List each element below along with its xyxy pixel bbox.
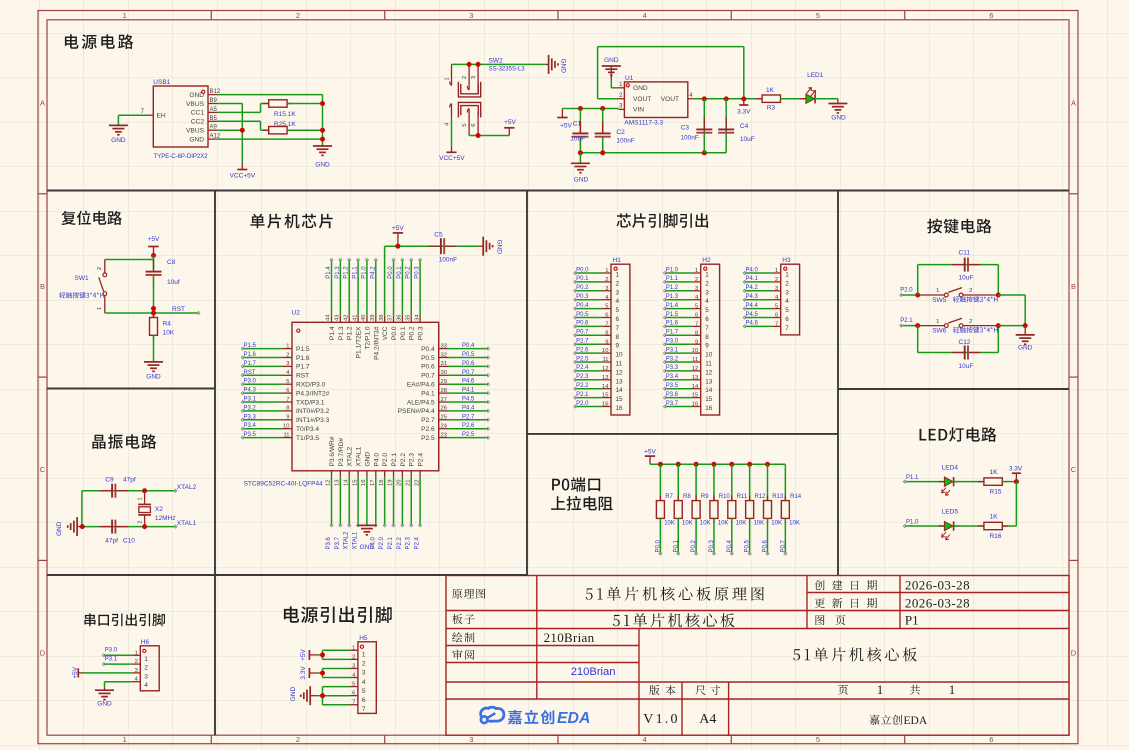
svg-text:C2: C2 — [616, 129, 625, 136]
svg-text:GND: GND — [496, 240, 503, 255]
wire net RST — [241, 370, 282, 377]
wire CC2 to R2 — [218, 121, 269, 130]
svg-text:USB1: USB1 — [153, 79, 170, 86]
connector H6 — [135, 639, 160, 691]
pin 15 XTAL1 — [352, 446, 362, 485]
wire LED4 to R15 — [953, 481, 984, 483]
pin 6 net P4.5 — [743, 312, 789, 323]
svg-text:P0.7: P0.7 — [462, 370, 475, 376]
svg-text:P2.5: P2.5 — [576, 356, 589, 362]
svg-text:4: 4 — [705, 298, 709, 305]
pin 3 P1.7 — [283, 361, 310, 371]
svg-text:R7: R7 — [665, 494, 673, 500]
svg-text:H3: H3 — [782, 257, 791, 264]
svg-text:R8: R8 — [683, 494, 691, 500]
svg-text:P1.7: P1.7 — [666, 330, 679, 336]
pin 18 P2.0 — [379, 453, 389, 486]
svg-text:P1.4: P1.4 — [329, 326, 336, 340]
svg-text:P4.6: P4.6 — [746, 321, 759, 327]
junction RST — [151, 306, 156, 311]
svg-text:11: 11 — [283, 432, 289, 438]
svg-text:10: 10 — [616, 352, 624, 359]
svg-text:1: 1 — [138, 497, 144, 500]
resistor R9 10K — [692, 464, 710, 526]
svg-text:R16: R16 — [990, 533, 1002, 540]
junction SW2 pin6 — [476, 133, 481, 138]
pin 6 net P1.5 — [663, 312, 709, 323]
svg-text:VCC: VCC — [382, 326, 389, 340]
svg-text:P3.0: P3.0 — [666, 339, 679, 345]
wire net P4.6 — [448, 379, 489, 386]
svg-text:P2.2: P2.2 — [576, 383, 589, 389]
wire net P0.3 — [415, 258, 422, 315]
svg-text:10: 10 — [692, 348, 698, 354]
junction P2.1 — [915, 323, 920, 328]
junction +5V reset — [151, 253, 156, 258]
pin 1 P1.5 — [283, 343, 310, 353]
svg-text:2: 2 — [97, 267, 103, 270]
svg-text:4: 4 — [362, 679, 366, 686]
junction output rail — [702, 96, 707, 101]
title 51单片机核心板 center — [793, 647, 917, 661]
svg-text:1: 1 — [775, 268, 778, 274]
svg-text:2: 2 — [785, 280, 789, 287]
svg-text:P1.6: P1.6 — [296, 355, 310, 362]
svg-text:6: 6 — [705, 316, 709, 323]
svg-text:SW1: SW1 — [75, 275, 89, 282]
svg-text:P0.3: P0.3 — [415, 266, 421, 279]
svg-text:P3.7: P3.7 — [335, 536, 341, 549]
title block label 原理图 — [452, 589, 485, 599]
svg-text:P0.3: P0.3 — [709, 539, 715, 552]
pin 44 P1.4 — [326, 314, 336, 340]
wire net P2.7 — [448, 414, 489, 421]
wire VOUT loop over U1 — [598, 47, 744, 100]
svg-text:10K: 10K — [771, 521, 782, 527]
wire RST node — [105, 309, 200, 318]
svg-text:1: 1 — [877, 682, 884, 697]
svg-text:100nF: 100nF — [439, 257, 457, 264]
resistor R12 10K — [746, 464, 766, 526]
svg-text:25: 25 — [441, 415, 447, 421]
svg-text:P0.3: P0.3 — [576, 294, 589, 300]
svg-text:P0.0: P0.0 — [388, 266, 394, 279]
svg-text:2: 2 — [138, 520, 144, 523]
wire 3.3V to H5 pins 3 4 — [318, 669, 349, 678]
section title 电源电路 — [65, 34, 133, 49]
svg-text:VCC+5V: VCC+5V — [230, 173, 256, 180]
svg-text:7: 7 — [785, 325, 789, 332]
svg-text:LED1: LED1 — [807, 72, 824, 79]
wire net P2.0 — [900, 288, 918, 297]
wire net P0.4 — [448, 343, 489, 350]
svg-text:2: 2 — [605, 277, 608, 283]
svg-text:P3.3: P3.3 — [666, 365, 679, 371]
svg-text:GND: GND — [831, 115, 846, 122]
svg-text:C8: C8 — [167, 259, 176, 266]
svg-text:13: 13 — [616, 378, 624, 385]
svg-text:33: 33 — [441, 343, 447, 349]
svg-text:2: 2 — [144, 665, 148, 672]
title block label 创建日期 — [815, 580, 878, 590]
wire XTAL1 net — [82, 491, 177, 528]
svg-text:LED5: LED5 — [942, 508, 959, 515]
svg-text:1: 1 — [605, 268, 608, 274]
pin 8 INT0#/P3.2 — [283, 406, 330, 416]
wire VOUT output rail — [694, 98, 762, 100]
svg-text:P3.5: P3.5 — [666, 383, 679, 389]
svg-text:11: 11 — [602, 357, 608, 363]
svg-text:EDA: EDA — [557, 710, 590, 727]
svg-text:P2.6: P2.6 — [576, 347, 589, 353]
svg-text:R25.1K: R25.1K — [274, 121, 296, 128]
power flag 3.3V at output — [737, 99, 751, 115]
svg-text:100nF: 100nF — [616, 138, 634, 145]
svg-text:6: 6 — [471, 123, 477, 126]
svg-text:P4.1: P4.1 — [746, 276, 759, 282]
wire net P1.1 — [353, 258, 360, 315]
pin 37 P0.0 — [388, 315, 398, 341]
power flag +5V at regulator input — [557, 109, 572, 130]
junction GND rail — [320, 101, 325, 106]
svg-text:4: 4 — [643, 735, 647, 744]
wire net P0.3 — [709, 518, 716, 555]
svg-text:P0.5: P0.5 — [462, 352, 475, 358]
svg-text:9: 9 — [616, 343, 620, 350]
svg-text:10uf: 10uf — [167, 279, 180, 286]
pin 12 P3.6/WR# — [326, 436, 336, 486]
svg-text:3: 3 — [695, 286, 698, 292]
wire GND to H5 pins 5 6 7 — [318, 687, 349, 705]
svg-text:P4.6: P4.6 — [462, 379, 475, 385]
wire net P2.2 — [397, 477, 404, 549]
svg-text:P0.2: P0.2 — [409, 326, 416, 340]
svg-text:H1: H1 — [613, 257, 622, 264]
svg-text:2026-03-28: 2026-03-28 — [905, 578, 970, 593]
svg-text:GND: GND — [560, 59, 567, 74]
svg-text:P3.1: P3.1 — [105, 657, 118, 663]
svg-text:VBUS: VBUS — [186, 128, 205, 135]
svg-text:9: 9 — [705, 343, 709, 350]
wire net P3.2 — [241, 405, 282, 412]
svg-text:11: 11 — [692, 357, 698, 363]
svg-text:P0.7: P0.7 — [421, 373, 435, 380]
svg-text:5: 5 — [785, 307, 789, 314]
wire net XTAL1 — [353, 477, 360, 549]
svg-text:6: 6 — [616, 316, 620, 323]
pin 4 net P0.3 — [574, 294, 620, 305]
svg-text:T2/P1.0: T2/P1.0 — [364, 326, 371, 349]
led LED5 — [938, 508, 959, 539]
svg-text:2: 2 — [352, 654, 355, 660]
svg-text:P2.0: P2.0 — [576, 401, 589, 407]
svg-text:26: 26 — [441, 406, 447, 412]
wire net P4.5 — [448, 397, 489, 404]
svg-text:A5: A5 — [210, 107, 218, 113]
pin 3 net P0.2 — [574, 285, 620, 296]
svg-text:C: C — [40, 465, 46, 474]
svg-text:10K: 10K — [753, 521, 764, 527]
svg-text:12MHz: 12MHz — [155, 515, 176, 522]
svg-text:3: 3 — [362, 670, 366, 677]
svg-text:A9: A9 — [210, 125, 218, 131]
regulator U1 AMS1117-3.3 — [618, 75, 693, 126]
title block label 版本 — [649, 685, 675, 695]
svg-text:P3.0: P3.0 — [105, 648, 118, 654]
svg-text:SS-3235S-L3: SS-3235S-L3 — [489, 67, 526, 73]
svg-text:P1.1/T2EX: P1.1/T2EX — [356, 326, 363, 358]
svg-text:2: 2 — [616, 280, 620, 287]
junction GND header — [320, 693, 325, 698]
svg-text:P0.7: P0.7 — [780, 539, 786, 552]
svg-text:2026-03-28: 2026-03-28 — [905, 596, 970, 611]
wire net P0.2 — [406, 258, 413, 315]
svg-text:P4.3: P4.3 — [746, 294, 759, 300]
resistor R4 10K — [150, 313, 175, 341]
svg-text:10uF: 10uF — [570, 136, 585, 143]
svg-text:P2.1: P2.1 — [391, 453, 398, 467]
ground right of SW2 — [546, 55, 567, 74]
svg-text:P3.6: P3.6 — [666, 392, 679, 398]
svg-text:1: 1 — [144, 656, 148, 663]
svg-text:P1.0: P1.0 — [361, 266, 367, 279]
wire +5V input rail — [562, 108, 618, 110]
svg-text:8: 8 — [616, 334, 620, 341]
wire net P3.4 — [241, 423, 282, 430]
svg-text:RST: RST — [296, 373, 309, 380]
junction at VBUS — [240, 128, 245, 133]
svg-text:P4.3/INT2#: P4.3/INT2# — [296, 390, 330, 397]
svg-text:EH: EH — [157, 113, 166, 120]
svg-text:16: 16 — [616, 405, 624, 412]
junction SW5 out — [996, 293, 1001, 298]
svg-text:P1.5: P1.5 — [244, 343, 257, 349]
svg-text:P3.5: P3.5 — [244, 432, 257, 438]
pin 14 net P3.5 — [663, 383, 712, 394]
svg-text:15: 15 — [616, 396, 624, 403]
svg-text:SW5: SW5 — [932, 297, 946, 304]
svg-text:P2.2: P2.2 — [397, 536, 403, 549]
wire net XTAL2 — [344, 477, 351, 549]
svg-text:5: 5 — [816, 11, 820, 20]
title block label 审阅 — [452, 650, 474, 660]
svg-text:P0.7: P0.7 — [576, 330, 589, 336]
svg-text:P0.6: P0.6 — [763, 539, 769, 552]
svg-text:14: 14 — [692, 384, 699, 390]
svg-text:13: 13 — [705, 378, 713, 385]
svg-text:C11: C11 — [959, 249, 971, 256]
pin 4 net P4.3 — [743, 294, 789, 305]
svg-text:5: 5 — [352, 682, 355, 688]
svg-text:XTAL2: XTAL2 — [344, 531, 350, 550]
svg-text:1: 1 — [352, 645, 355, 651]
wire R15 to 3.3V — [1002, 481, 1016, 483]
pin 3 net P4.2 — [743, 285, 789, 296]
title block label 绘制 — [452, 632, 474, 642]
svg-text:CC1: CC1 — [191, 110, 205, 117]
pin 14 net P2.2 — [574, 383, 623, 394]
pin 4 net P1.3 — [663, 294, 709, 305]
pin 15 net P2.1 — [574, 392, 623, 403]
wire net P1.1 — [903, 475, 944, 483]
svg-text:4: 4 — [616, 298, 620, 305]
pin 11 T1/P3.5 — [283, 432, 320, 442]
svg-text:P3.6/WR#: P3.6/WR# — [329, 436, 336, 466]
wire +5V to H6 pin3 — [84, 672, 132, 674]
capacitor C2 100nF — [595, 109, 635, 153]
svg-text:P2.0: P2.0 — [382, 453, 389, 467]
pin 27 ALE/P4.5 — [407, 397, 448, 407]
svg-text:2: 2 — [705, 280, 709, 287]
wire VCC+5V net from VBUS pins — [218, 104, 243, 163]
svg-text:VIN: VIN — [633, 107, 644, 114]
svg-text:10K: 10K — [682, 521, 693, 527]
pin 22 P2.4 — [414, 453, 424, 486]
svg-text:R10: R10 — [719, 494, 731, 500]
svg-text:1: 1 — [785, 272, 789, 279]
pin 1 net P4.0 — [743, 267, 789, 278]
svg-text:XTAL1: XTAL1 — [356, 446, 363, 466]
wire net P1.5 — [241, 343, 282, 350]
capacitor C5 100nF — [429, 232, 458, 264]
wire LED5 to R16 — [953, 525, 984, 527]
svg-text:14: 14 — [602, 384, 609, 390]
svg-text:2: 2 — [969, 288, 972, 294]
svg-text:+5V: +5V — [148, 236, 160, 243]
svg-text:D: D — [1071, 648, 1077, 657]
junction 3.3V led — [1014, 479, 1019, 484]
svg-text:10uF: 10uF — [740, 136, 755, 143]
svg-text:6: 6 — [352, 691, 355, 697]
section divider over title block — [446, 574, 528, 576]
wire net P1.3 — [335, 258, 342, 315]
svg-text:P4.4: P4.4 — [462, 405, 475, 411]
svg-text:P2.1: P2.1 — [900, 318, 913, 324]
ground buttons — [1016, 326, 1035, 352]
svg-text:LED4: LED4 — [942, 464, 959, 471]
svg-text:C1: C1 — [573, 121, 582, 128]
svg-text:1: 1 — [936, 288, 939, 294]
pin 13 net P2.3 — [574, 374, 623, 385]
svg-text:5: 5 — [286, 379, 289, 385]
pin 31 P0.6 — [421, 361, 448, 371]
svg-text:1: 1 — [97, 307, 103, 310]
wire net P1.2 — [344, 258, 351, 315]
wire net P2.5 — [448, 432, 489, 439]
pin 2 net P4.1 — [743, 276, 789, 287]
svg-text:10K: 10K — [664, 521, 675, 527]
wire net P1.0 — [903, 520, 944, 528]
svg-text:GND: GND — [360, 544, 375, 551]
svg-text:P4.4: P4.4 — [746, 303, 759, 309]
svg-text:U1: U1 — [625, 75, 634, 82]
pin 20 P2.2 — [397, 453, 407, 486]
title block 页 1 共 1 — [838, 682, 955, 697]
wire GND rail under C1 C2 — [580, 152, 726, 154]
pin 2 net P1.1 — [663, 276, 709, 287]
svg-text:P2.3: P2.3 — [576, 374, 589, 380]
svg-text:P0.1: P0.1 — [673, 539, 679, 552]
svg-text:CC2: CC2 — [191, 119, 205, 126]
svg-text:P3.7: P3.7 — [666, 401, 679, 407]
mcu U2 STC89C52RC-40I-LQFP44 — [244, 310, 439, 488]
pin 13 net P3.4 — [663, 374, 712, 385]
wire net P4.0 — [370, 477, 377, 549]
wire net P1.7 — [241, 361, 282, 368]
svg-text:10K: 10K — [163, 330, 175, 337]
resistor R10 10K — [710, 464, 730, 526]
wire U2 GND pin16 — [366, 477, 368, 525]
pin 7 net P1.6 — [663, 321, 709, 332]
wire SW5 to GND rail — [998, 295, 1025, 326]
svg-text:10: 10 — [705, 352, 713, 359]
svg-text:14: 14 — [616, 387, 624, 394]
svg-text:+5V: +5V — [392, 225, 404, 232]
wire net P0.2 — [691, 518, 698, 555]
svg-text:A4: A4 — [699, 712, 716, 727]
svg-text:10: 10 — [602, 348, 608, 354]
svg-text:ALE/P4.5: ALE/P4.5 — [407, 399, 435, 406]
wire net P4.1 — [448, 388, 489, 395]
svg-text:2: 2 — [775, 277, 778, 283]
svg-text:P0.4: P0.4 — [462, 343, 475, 349]
wire net P2.3 — [406, 477, 413, 549]
svg-text:2: 2 — [462, 76, 468, 79]
wire net P4.3 — [241, 388, 282, 395]
svg-text:TYPE-C-6P-DIP2X2: TYPE-C-6P-DIP2X2 — [154, 154, 209, 160]
svg-text:4: 4 — [785, 298, 789, 305]
svg-text:GND: GND — [604, 57, 619, 64]
pin 28 P4.1 — [421, 388, 448, 398]
ground serial — [95, 687, 114, 707]
wire net P3.0 — [102, 648, 140, 657]
svg-text:2: 2 — [362, 661, 366, 668]
pin 26 PSEN#/P4.4 — [398, 406, 449, 416]
svg-text:B5: B5 — [210, 116, 218, 122]
resistor R1 5.1K — [263, 100, 297, 118]
svg-text:9: 9 — [286, 415, 289, 421]
junction VCC +5V — [395, 244, 400, 249]
svg-text:H2: H2 — [702, 257, 711, 264]
connector H5 — [349, 635, 376, 714]
svg-text:P2.5: P2.5 — [421, 435, 435, 442]
svg-text:1: 1 — [123, 735, 127, 744]
svg-text:R13: R13 — [772, 494, 784, 500]
svg-text:P0.4: P0.4 — [727, 539, 733, 552]
svg-text:B: B — [1071, 282, 1076, 291]
svg-text:INT0#/P3.2: INT0#/P3.2 — [296, 408, 330, 415]
pin 14 XTAL2 — [343, 446, 353, 485]
svg-text:U2: U2 — [292, 310, 301, 317]
section divider lines — [47, 191, 1069, 736]
svg-text:P3.3: P3.3 — [244, 414, 257, 420]
svg-text:P1.2: P1.2 — [344, 266, 350, 279]
svg-text:P2.7: P2.7 — [421, 417, 435, 424]
svg-text:P1.1: P1.1 — [353, 266, 359, 279]
svg-text:RXD/P3.0: RXD/P3.0 — [296, 382, 326, 389]
svg-text:H5: H5 — [359, 635, 368, 642]
title 51单片机核心板 — [613, 613, 735, 627]
svg-text:210Brian: 210Brian — [544, 630, 595, 645]
svg-text:P1.4: P1.4 — [666, 303, 679, 309]
svg-text:8: 8 — [695, 330, 698, 336]
wire +5V to H5 pins 1 2 — [318, 650, 349, 659]
svg-text:P0.1: P0.1 — [397, 266, 403, 279]
svg-text:P1.1: P1.1 — [666, 276, 679, 282]
svg-text:3.3V: 3.3V — [737, 108, 751, 115]
svg-text:11: 11 — [616, 361, 623, 368]
wire CC1 to R1 — [218, 104, 269, 113]
